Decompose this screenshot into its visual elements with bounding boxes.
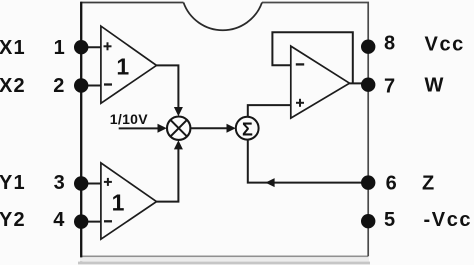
IC body outline	[81, 3, 183, 257]
wire op-amp output to pin7	[350, 82, 369, 84]
wire feedback loop around op-amp	[272, 32, 352, 83]
arrowhead into summer left	[227, 124, 236, 133]
svg-text:1/10V: 1/10V	[110, 111, 148, 127]
svg-text:Σ: Σ	[242, 119, 253, 139]
wire multiplier to summer	[191, 127, 228, 129]
svg-text:X1: X1	[0, 37, 26, 59]
svg-text:X2: X2	[0, 75, 26, 97]
svg-text:1: 1	[112, 190, 125, 216]
wire X-amp output to multiplier (down)	[157, 65, 179, 108]
svg-text:Z: Z	[422, 172, 434, 194]
notch (top-center index arc)	[184, 3, 263, 31]
wire Y-amp output to multiplier (up)	[157, 148, 179, 202]
svg-text:8: 8	[384, 32, 395, 54]
wire 1/10V scale input	[119, 127, 159, 129]
pin 5 dot	[361, 214, 375, 228]
svg-text:6: 6	[386, 172, 397, 194]
wire pin3 to Y-amp + input	[81, 183, 101, 185]
svg-text:1: 1	[116, 53, 129, 79]
pin 7 dot	[361, 78, 375, 92]
wire pin1 to X-amp + input	[81, 46, 101, 48]
op-amp U1 (output buffer)	[291, 46, 350, 118]
arrowhead into multiplier left	[158, 124, 167, 133]
pin 6 dot	[361, 175, 375, 189]
svg-text:W: W	[425, 74, 444, 96]
wire Z feedback: pin6 to summer	[248, 139, 368, 182]
svg-text:2: 2	[53, 75, 64, 97]
wire pin4 to Y-amp - input	[81, 221, 101, 223]
arrowhead on Z feedback (pointing left)	[265, 178, 274, 187]
pin 1 dot	[74, 40, 88, 54]
pin 2 dot	[74, 78, 88, 92]
amplifier A2 (Y input diff amp)	[101, 163, 157, 239]
svg-text:5: 5	[384, 209, 395, 231]
svg-text:Y1: Y1	[0, 172, 26, 194]
arrowhead into multiplier top	[174, 107, 183, 116]
summer (sigma circle)	[236, 117, 259, 140]
multiplier (circle-X)	[167, 117, 190, 140]
amplifier A1 (X input diff amp)	[101, 26, 157, 103]
wire summer to op-amp + input	[248, 105, 291, 117]
svg-text:1: 1	[54, 37, 65, 59]
pin 3 dot	[74, 176, 88, 190]
svg-text:3: 3	[54, 172, 65, 194]
arrowhead into multiplier bottom	[174, 140, 183, 149]
svg-text:4: 4	[53, 209, 65, 231]
pin 8 dot	[361, 40, 375, 54]
pin 4 dot	[74, 214, 88, 228]
svg-text:-Vcc: -Vcc	[424, 209, 473, 231]
svg-text:Vcc: Vcc	[425, 33, 465, 55]
wire pin2 to X-amp - input	[81, 85, 101, 87]
svg-text:Y2: Y2	[0, 209, 26, 231]
svg-text:7: 7	[384, 76, 395, 98]
IC left edge (darker)	[80, 2, 82, 264]
scan shadow under bottom edge	[80, 257, 369, 261]
